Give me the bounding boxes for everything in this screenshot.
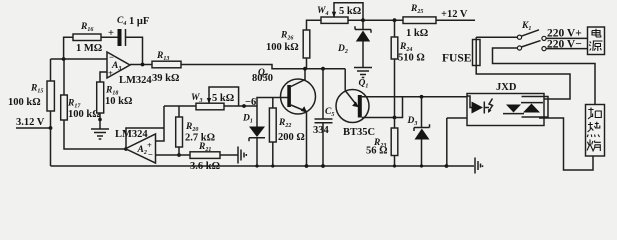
wire JXD right-top terminal handled above; right-bottom to furnace <box>539 118 593 170</box>
resistor R22 <box>269 108 276 142</box>
resistor R26 <box>303 30 310 58</box>
wire R16 left lead riser <box>64 37 73 59</box>
svg-text:3.6 kΩ: 3.6 kΩ <box>190 161 220 172</box>
wire R20 bottom lead <box>178 147 180 155</box>
svg-text:100 kΩ: 100 kΩ <box>266 42 299 53</box>
wire R18 to ground <box>99 113 101 129</box>
capacitor C4 <box>118 29 122 46</box>
node Q2 collector/R26 <box>303 67 307 71</box>
svg-text:+: + <box>147 140 152 150</box>
svg-text:−6: −6 <box>245 97 256 108</box>
svg-text:1 kΩ: 1 kΩ <box>406 28 428 39</box>
svg-text:FUSE: FUSE <box>442 53 472 65</box>
glyph dian <box>592 29 601 37</box>
wire drop to rail at 446.5 <box>446 118 448 166</box>
resistor R24 <box>391 37 398 59</box>
wire R22 bottom to rail <box>272 142 274 166</box>
wire D1 top lead <box>256 106 258 127</box>
svg-text:10 kΩ: 10 kΩ <box>105 96 132 107</box>
node R20/A2 minus <box>177 153 181 157</box>
wire A3 plus input to R18 <box>100 72 107 82</box>
wiper arrow W3 <box>207 98 211 104</box>
node B1/R23/R24 <box>393 116 397 120</box>
wire K1 pole2 to 220V- <box>546 48 587 50</box>
svg-text:5 kΩ: 5 kΩ <box>212 93 234 104</box>
wire R13 output run to Q1 <box>181 65 345 69</box>
svg-text:3.12 V: 3.12 V <box>16 117 45 128</box>
resistor R17 <box>61 95 68 120</box>
wire Q1 emitter diagonal <box>345 91 358 107</box>
wire W3 left lead <box>164 105 196 107</box>
box JXD optocoupler <box>467 94 544 126</box>
glyph yuan <box>589 41 602 51</box>
LED inside JXD <box>467 96 472 108</box>
wire Q1 emitter riser from R13 net <box>344 69 346 91</box>
wire D1 bottom to rail <box>256 138 258 166</box>
ground sideways R21 <box>238 147 246 164</box>
wire fuse top to K1 pole1 <box>476 36 517 38</box>
svg-text:39 kΩ: 39 kΩ <box>152 73 179 84</box>
resistor R16 <box>73 34 101 41</box>
wire into JXD LED cathode <box>447 117 467 119</box>
wire +12V terminal <box>436 19 475 21</box>
svg-text:8050: 8050 <box>252 73 273 84</box>
wire W3 wiper bracket <box>209 87 239 106</box>
wiper arrow W4 <box>332 12 336 17</box>
svg-text:1 MΩ: 1 MΩ <box>76 43 102 54</box>
diode D1 <box>249 127 265 138</box>
wire jog up to Q2 base line <box>257 98 288 107</box>
svg-text:BT35C: BT35C <box>343 127 375 138</box>
wire R17 bottom to A2 output <box>64 120 126 149</box>
wire W4 right lead to R25 <box>348 19 403 21</box>
node C5 rail <box>321 164 325 168</box>
wire Q1 B1 lead <box>362 117 395 119</box>
fuse F <box>473 40 481 66</box>
capacitor C5 <box>315 118 333 120</box>
wire A2 minus input <box>156 154 191 156</box>
wire fuse bottom to JXD triac top <box>476 70 570 99</box>
wire R16 to C4 <box>101 36 118 38</box>
zener D3 <box>421 97 423 128</box>
svg-text:510 Ω: 510 Ω <box>398 53 425 64</box>
node R22 rail <box>271 164 274 167</box>
wire K1 pole2 left to furnace top <box>493 48 596 105</box>
node W3 output <box>242 104 246 108</box>
triac inside JXD <box>506 105 521 113</box>
svg-text:220 V−: 220 V− <box>547 39 582 51</box>
wire C4 to A3 output node <box>126 37 143 64</box>
svg-text:100 kΩ: 100 kΩ <box>68 109 101 120</box>
resistor R13 <box>152 61 181 68</box>
svg-text:100 kΩ: 100 kΩ <box>8 97 41 108</box>
svg-text:5 kΩ: 5 kΩ <box>339 6 361 17</box>
node R23 rail <box>393 164 396 167</box>
wire W3 right lead <box>224 105 257 107</box>
wire Q1 B2 lead to JXD <box>362 96 467 98</box>
transistor Q2 <box>281 79 316 114</box>
svg-text:+12 V: +12 V <box>441 9 468 20</box>
glyph jia <box>588 108 601 120</box>
node D3 rail <box>420 164 423 167</box>
ground sideways rail end <box>447 165 475 167</box>
transistor Q1 <box>336 90 369 123</box>
wire 3.12V input <box>16 127 51 129</box>
svg-text:334: 334 <box>313 125 330 136</box>
wire B1 jog up to B2 net <box>395 97 403 118</box>
wire R21 to ground <box>220 154 238 156</box>
box mains supply (dian yuan) <box>588 27 605 55</box>
resistor R23 <box>391 128 398 156</box>
svg-text:200 Ω: 200 Ω <box>278 132 305 143</box>
wire D2 to ground <box>362 42 364 68</box>
wire K1 pole1 to 220V+ <box>546 37 587 39</box>
node A3 output <box>141 63 145 67</box>
svg-text:+: + <box>108 28 114 39</box>
svg-text:−: − <box>148 150 153 160</box>
wire R17 top lead <box>63 59 65 95</box>
svg-text:56 Ω: 56 Ω <box>366 146 388 157</box>
wire bottom ground rail <box>51 165 447 167</box>
potentiometer W4 <box>321 17 348 23</box>
wire A2 plus input hook <box>156 106 165 141</box>
node A2 output <box>124 147 128 151</box>
wire C5 bottom to rail <box>322 123 324 166</box>
wire Q2 emitter <box>291 105 307 112</box>
ground D2 <box>354 68 372 78</box>
op-amp A2 (points left) <box>126 134 156 163</box>
glyph lu <box>587 140 601 152</box>
node 3.12V junction <box>49 126 53 130</box>
wire 3.12V node down to bottom rail <box>50 128 52 166</box>
wire A3 inverting-input net <box>51 58 108 60</box>
node Q2 emitter rail <box>305 164 309 168</box>
node A3 minus junction <box>62 57 66 61</box>
svg-text:+: + <box>108 68 113 78</box>
wire R26 bottom lead <box>306 58 308 69</box>
wire Q2 collector <box>291 69 305 87</box>
wire R15 top lead <box>50 59 52 81</box>
box heating furnace <box>586 105 605 157</box>
wire C5 riser <box>322 69 324 119</box>
potentiometer W3 <box>196 103 224 110</box>
resistor R18 <box>97 82 104 113</box>
svg-text:LM324: LM324 <box>115 129 148 140</box>
node R24 tap <box>393 18 397 22</box>
lightning arrow <box>489 99 493 112</box>
svg-text:JXD: JXD <box>496 82 517 93</box>
resistor R21 <box>190 152 220 159</box>
svg-text:1 μF: 1 μF <box>129 16 149 27</box>
wire A3 output <box>130 64 152 66</box>
wire R26 top to W4 left <box>307 20 322 30</box>
resistor R20 <box>176 117 183 147</box>
wire R22 top lead <box>272 98 274 109</box>
op-amp A3 <box>107 52 130 78</box>
node D3 tap <box>420 95 424 99</box>
wire R15 bottom to 3.12V node <box>50 111 52 128</box>
resistor R15 <box>47 81 54 111</box>
wire R24 vertical <box>394 20 396 37</box>
wire R24 bottom long drop to B1 node <box>394 59 396 118</box>
ground R18 <box>91 129 109 139</box>
node C5 riser <box>321 67 325 71</box>
resistor R25 <box>403 17 436 24</box>
wire A2 feedback output riser <box>126 128 164 149</box>
wire R20 top lead <box>178 106 180 117</box>
node D1 rail <box>255 164 258 167</box>
node D2 tap <box>361 18 365 22</box>
wire R23 bottom to rail <box>394 156 396 167</box>
glyph re <box>587 122 600 137</box>
svg-text:LM324: LM324 <box>119 75 152 86</box>
zener D2 <box>362 20 364 29</box>
wire W4 wiper bracket <box>334 3 363 20</box>
